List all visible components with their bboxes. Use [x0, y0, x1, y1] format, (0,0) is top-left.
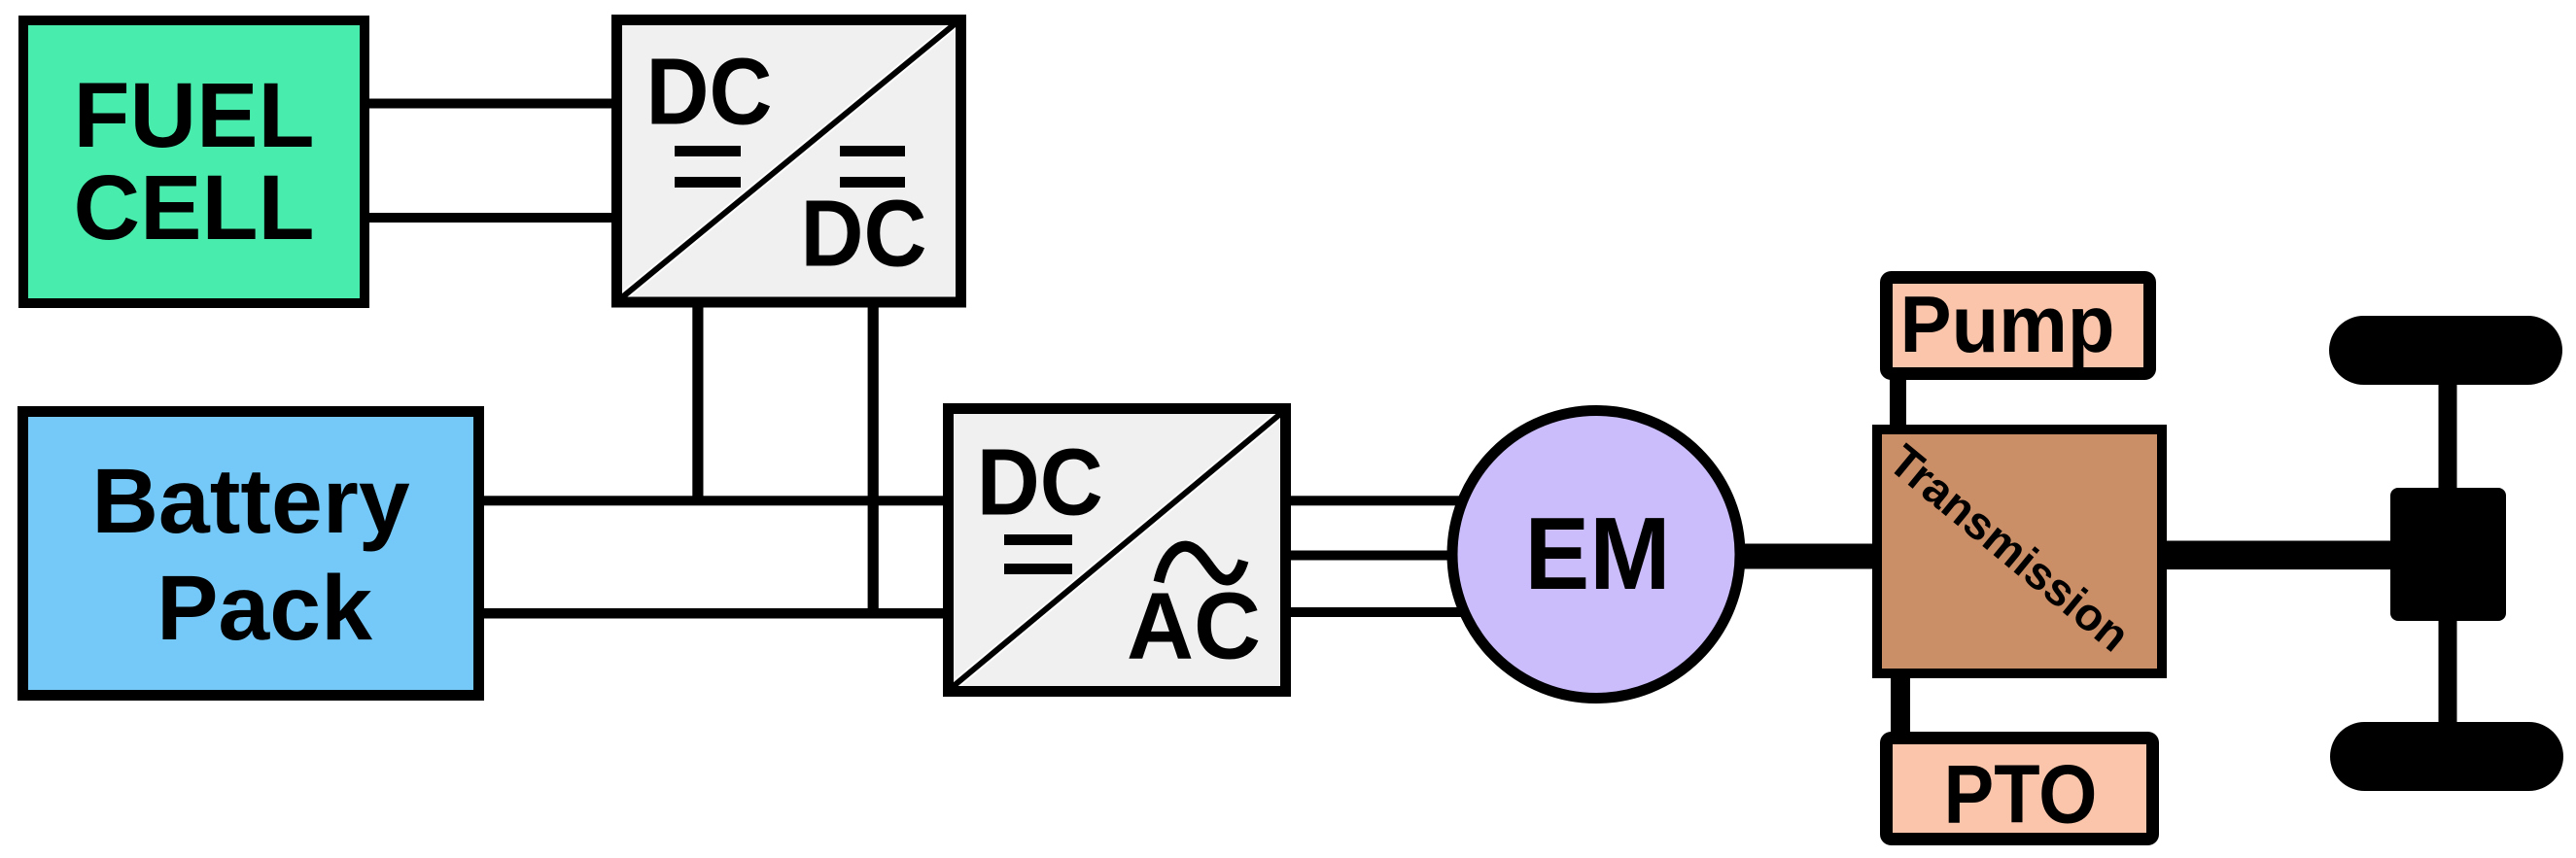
svg-text:PTO: PTO	[1944, 749, 2098, 841]
wire fuel cell to DC/DC upper	[365, 99, 617, 109]
svg-text:Battery: Battery	[91, 450, 410, 553]
DC/DC diagonal	[622, 23, 956, 297]
transmission block	[1877, 429, 2162, 673]
wire DC/AC to EM phase A	[1286, 496, 1519, 505]
PTO block	[1887, 738, 2153, 841]
wire battery to DC/AC lower bus	[478, 608, 948, 619]
wire fuel cell to DC/DC lower	[365, 213, 617, 223]
axle	[2439, 379, 2457, 729]
electric machine EM circle	[1452, 411, 1740, 699]
DC/AC input dc bars	[1004, 534, 1072, 545]
svg-text:Pump: Pump	[1900, 279, 2115, 369]
svg-text:EM: EM	[1525, 497, 1671, 611]
DC/AC ac tilde	[1159, 546, 1243, 582]
pump block	[1887, 278, 2150, 374]
svg-text:FUEL: FUEL	[73, 64, 314, 167]
svg-text:DC: DC	[801, 181, 927, 287]
wire DC/AC to EM phase B	[1286, 551, 1519, 561]
fuel cell block	[23, 20, 365, 303]
svg-text:DC: DC	[977, 429, 1103, 535]
rear wheel	[2330, 722, 2563, 791]
differential	[2390, 488, 2506, 621]
svg-text:CELL: CELL	[73, 156, 314, 259]
wire battery to DC/AC upper bus	[478, 496, 948, 505]
connector pump to transmission	[1890, 369, 1906, 429]
DC/DC converter box	[617, 20, 961, 303]
connector transmission to PTO	[1891, 670, 1910, 743]
svg-text:AC: AC	[1127, 573, 1261, 679]
DC/AC inverter box	[949, 409, 1286, 692]
drive shaft transmission to differential	[2162, 541, 2395, 570]
wire DC/DC bottom-right vertical to DC bus	[868, 301, 879, 618]
front wheel	[2329, 316, 2562, 385]
DC/DC output dc bars	[840, 146, 905, 156]
DC/AC diagonal	[954, 414, 1280, 686]
shaft EM to transmission	[1721, 544, 1877, 569]
wire DC/DC bottom-left vertical to DC bus	[692, 301, 703, 505]
svg-text:Pack: Pack	[157, 557, 372, 660]
svg-text:DC: DC	[646, 39, 773, 145]
wire DC/AC to EM phase C	[1286, 607, 1519, 617]
battery pack block	[23, 412, 479, 696]
DC/DC input dc bars	[675, 146, 741, 156]
